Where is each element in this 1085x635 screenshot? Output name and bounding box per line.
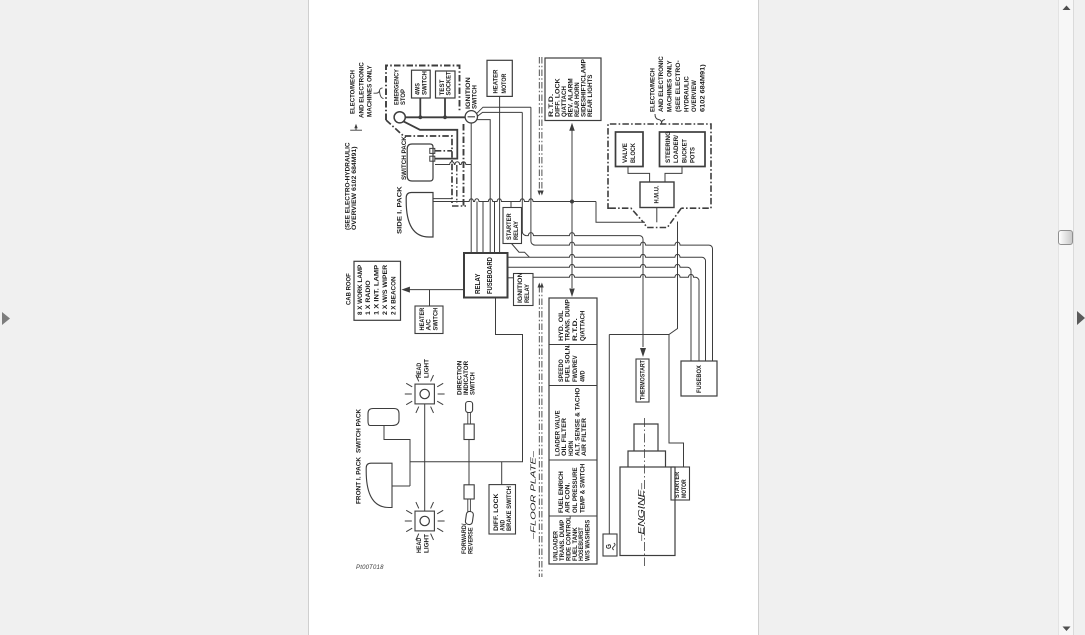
scrollbar track: [1058, 0, 1074, 635]
svg-text:SWITCH: SWITCH: [472, 85, 479, 109]
wire between headlights: [424, 404, 426, 511]
svg-text:FUEL SOLN.: FUEL SOLN.: [565, 344, 572, 382]
svg-text:MACHINES ONLY: MACHINES ONLY: [667, 60, 674, 112]
wire valve block to hmu: [628, 167, 650, 183]
wire main horizontal bus: [433, 199, 596, 202]
switch pack lower shape: [368, 409, 399, 426]
note arrow up: [355, 126, 357, 130]
switch pack connector shape: [407, 144, 433, 181]
svg-text:LOADER/: LOADER/: [673, 135, 680, 163]
engine centerline: [644, 418, 646, 566]
box ignition relay: [514, 274, 534, 306]
wire alternator branch: [609, 334, 669, 336]
box fusebox: [681, 361, 717, 396]
svg-text:AIR CON.: AIR CON.: [565, 482, 572, 513]
svg-text:SOCKET: SOCKET: [446, 71, 453, 96]
svg-text:FWD/REV: FWD/REV: [572, 355, 579, 382]
svg-text:SWITCH: SWITCH: [432, 307, 439, 330]
boundary extra segment: [456, 165, 458, 203]
svg-text:OVERVIEW: OVERVIEW: [691, 80, 698, 112]
box floor plate functions: [549, 298, 597, 564]
wire bundle line 4 to fusebox: [508, 264, 692, 361]
wire 4ws to bus: [419, 98, 421, 117]
node junction 4ws: [418, 115, 422, 119]
wire test socket to bus: [444, 98, 446, 117]
svg-text:AND ELECTRONIC: AND ELECTRONIC: [359, 62, 366, 118]
svg-text:SWITCH: SWITCH: [470, 372, 477, 395]
wire fuseboard bottom: [410, 298, 523, 462]
brace to electro/mech region: [374, 88, 384, 99]
switch pack stub upper: [430, 148, 435, 153]
node bus junction: [570, 200, 574, 204]
wire bundle line 5 to fusebox: [533, 274, 699, 361]
white document page: [308, 0, 759, 635]
wire direction indicator down: [468, 440, 470, 462]
svg-text:2 X W/S WIPER: 2 X W/S WIPER: [382, 265, 389, 315]
switch pack stub lower: [430, 156, 435, 161]
svg-text:ELECTO/MECH: ELECTO/MECH: [350, 70, 357, 114]
svg-text:(SEE ELECTRO-: (SEE ELECTRO-: [675, 60, 682, 112]
svg-text:BLOCK: BLOCK: [630, 143, 637, 163]
svg-text:G: G: [606, 543, 613, 549]
wire bus corner to funnel: [596, 202, 645, 223]
svg-text:SWITCH: SWITCH: [422, 71, 429, 95]
svg-text:RELAY: RELAY: [524, 283, 531, 303]
svg-text:TEMP & SWITCH: TEMP & SWITCH: [580, 463, 587, 513]
svg-text:FRONT I. PACK: FRONT I. PACK: [356, 457, 363, 504]
svg-text:2 X BEACON: 2 X BEACON: [390, 276, 397, 315]
box heater motor: [487, 60, 512, 96]
wire to cab roof with arrow: [410, 289, 465, 291]
svg-text:HYDRAULIC: HYDRAULIC: [684, 76, 691, 112]
wire front pack to node: [392, 485, 410, 487]
wire fuseboard top feeds: [476, 202, 478, 254]
svg-text:AIR FILTER: AIR FILTER: [581, 418, 588, 456]
wire switch pack to node: [384, 426, 410, 487]
svg-text:LIGHT: LIGHT: [423, 359, 430, 378]
svg-text:8 X WORK LAMP: 8 X WORK LAMP: [357, 264, 364, 315]
svg-text:HEATER: HEATER: [493, 70, 500, 94]
brace right label: [655, 114, 665, 124]
boundary diagonal + lower run: [386, 120, 452, 203]
svg-text:TRANS. DUMP: TRANS. DUMP: [565, 299, 572, 341]
svg-text:FUSEBOX: FUSEBOX: [696, 365, 703, 393]
svg-text:6102 684M91): 6102 684M91): [700, 64, 707, 112]
emergency stop switch: [394, 112, 405, 123]
box valve block: [616, 132, 644, 167]
scrollbar down arrow: [1062, 626, 1072, 632]
svg-text:SIDE I. PACK: SIDE I. PACK: [397, 186, 404, 234]
svg-text:RELAY: RELAY: [513, 220, 520, 240]
boundary bottom bar: [452, 205, 466, 207]
svg-text:4WD: 4WD: [580, 370, 587, 382]
svg-text:MOTOR: MOTOR: [501, 74, 508, 94]
svg-text:ELECTO/MECH: ELECTO/MECH: [650, 68, 657, 112]
wire left stub feed: [435, 162, 471, 165]
svg-text:STOP: STOP: [400, 89, 407, 105]
box 4WS switch: [412, 70, 431, 98]
front pack shape: [366, 463, 392, 507]
wire starter relay top: [510, 202, 512, 208]
scrollbar up arrow: [1062, 5, 1072, 11]
wire heater ac up: [429, 290, 431, 306]
left nav arrow: [2, 312, 12, 326]
headlight lamp: [415, 384, 434, 404]
svg-text:MACHINES ONLY: MACHINES ONLY: [367, 65, 374, 117]
svg-text:FUSEBOARD: FUSEBOARD: [487, 257, 494, 294]
wire diff lock up: [501, 462, 503, 485]
svg-text:REVERSE: REVERSE: [467, 527, 474, 554]
wire bundle line 2 to fusebox: [531, 107, 535, 245]
svg-text:–FLOOR PLATE–: –FLOOR PLATE–: [528, 450, 537, 541]
wire heater motor down: [499, 96, 501, 253]
svg-text:HEAD: HEAD: [416, 538, 423, 553]
box HMU: [640, 182, 674, 208]
wire steering to hmu: [665, 167, 682, 183]
wire bundle line 3 to fusebox: [508, 254, 706, 361]
wire side pack upper: [433, 198, 452, 200]
svg-text:OVERVIEW 6102 684M91): OVERVIEW 6102 684M91): [351, 147, 358, 231]
box relay fuseboard: [464, 253, 508, 298]
boundary electro/mech region: [386, 66, 460, 121]
headlight lamp: [415, 511, 434, 531]
svg-text:REAR LIGHTS: REAR LIGHTS: [587, 74, 594, 117]
side pack connector shape: [406, 193, 433, 238]
box starter motor: [671, 467, 690, 500]
wire stub upper dashdot: [435, 150, 452, 152]
wire ignition right-bottom down: [477, 120, 490, 253]
svg-text:POTS: POTS: [690, 147, 697, 163]
wire arrow down to hyd oil box: [571, 202, 573, 289]
wire ignition upper right: [477, 107, 531, 113]
box cab roof list: [354, 261, 401, 320]
svg-text:BUCKET: BUCKET: [681, 138, 688, 163]
svg-text:R.T.D.: R.T.D.: [572, 318, 579, 341]
wire funnel output down to starter: [669, 222, 684, 468]
node junction test socket: [443, 115, 447, 119]
svg-text:MOTOR: MOTOR: [681, 479, 688, 498]
svg-text:Q/ATTACH: Q/ATTACH: [580, 310, 587, 341]
wire ignition bottom down: [470, 123, 472, 253]
wire hmu down: [656, 208, 658, 223]
wire starter relay feeder: [512, 244, 530, 258]
svg-text:–ENGINE–: –ENGINE–: [637, 482, 646, 542]
svg-text:THERMOSTART: THERMOSTART: [639, 360, 646, 400]
svg-text:H.M.U.: H.M.U.: [654, 185, 661, 203]
svg-text:W/S WASHERS: W/S WASHERS: [585, 519, 592, 561]
svg-text:IGNITION: IGNITION: [517, 272, 524, 303]
boundary floor plate lower segment: [538, 286, 540, 577]
wire bundle line 1 + thermostart drop: [522, 112, 526, 235]
generator G: [603, 534, 617, 556]
boundary steering/valve region: [608, 124, 711, 208]
boundary segment along ignition: [463, 124, 465, 206]
engine step 2: [634, 424, 658, 451]
engine block: [620, 467, 675, 556]
engine step 1: [628, 451, 666, 467]
svg-text:Pt00T018: Pt00T018: [356, 565, 384, 571]
wire emergency stop feed: [404, 122, 458, 159]
box steering loader bucket pots: [660, 132, 706, 167]
forward reverse stalk: [468, 462, 470, 485]
svg-text:1 X INT. LAMP: 1 X INT. LAMP: [373, 264, 380, 315]
svg-text:RELAY: RELAY: [475, 273, 482, 294]
svg-text:VALVE: VALVE: [622, 143, 629, 163]
right nav arrow: [1077, 311, 1085, 326]
direction indicator stalk: [466, 402, 473, 413]
svg-text:SWITCH PACK: SWITCH PACK: [356, 409, 363, 453]
svg-text:STEERING: STEERING: [665, 131, 672, 163]
wire arrow up into RTD box: [571, 130, 573, 202]
box test socket: [436, 71, 456, 98]
box diff lock brake switch: [489, 485, 516, 534]
box starter relay: [503, 208, 522, 244]
ignition switch symbol: [465, 111, 477, 123]
svg-text:AND ELECTRONIC: AND ELECTRONIC: [658, 56, 665, 112]
box heater ac switch: [415, 306, 443, 334]
box thermostart: [636, 359, 649, 402]
wire main bus emergency-ignition: [405, 116, 465, 118]
svg-text:CAB ROOF: CAB ROOF: [346, 273, 353, 305]
svg-text:HEAD: HEAD: [416, 363, 423, 378]
svg-text:1 X RADIO: 1 X RADIO: [365, 280, 372, 315]
scrollbar thumb: [1058, 230, 1073, 245]
boundary floor plate upper segment: [538, 57, 540, 192]
wire ignition lower right: [477, 112, 522, 116]
box RTD functions: [545, 58, 601, 121]
svg-text:LIGHT: LIGHT: [423, 534, 430, 553]
svg-text:OIL PRESSURE: OIL PRESSURE: [572, 467, 579, 513]
svg-text:BRAKE SWITCH: BRAKE SWITCH: [506, 486, 513, 531]
